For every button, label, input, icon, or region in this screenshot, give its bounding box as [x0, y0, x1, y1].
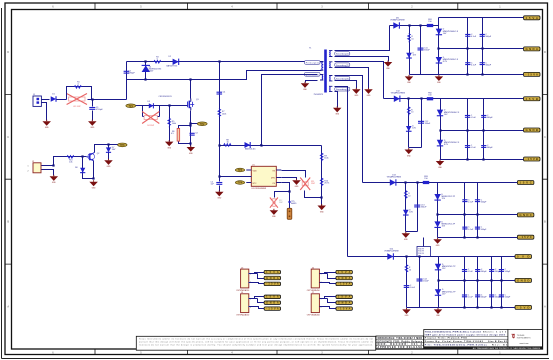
svg-text:560pF: 560pF — [487, 147, 493, 149]
wire block4 bottom rail — [407, 307, 516, 309]
net tab block4 out+ — [515, 255, 532, 259]
wire J6 pin1 to tab1 — [320, 273, 336, 274]
net tab block4 mid — [515, 278, 532, 282]
svg-text:INSTRUMENTS: INSTRUMENTS — [517, 338, 531, 340]
ground sec3 — [352, 88, 361, 97]
svg-text:-15VA: -15VA — [338, 307, 351, 310]
transformer T1 secondary winding 4 — [329, 86, 332, 91]
svg-text:560pF: 560pF — [481, 201, 487, 203]
wire snub diode leg — [145, 62, 147, 80]
diode D6 — [245, 142, 251, 148]
resistor R7 divider — [218, 109, 226, 118]
svg-text:0.5: 0.5 — [171, 133, 174, 135]
title block main table rows — [424, 330, 508, 346]
svg-text:28.7k: 28.7k — [324, 183, 329, 185]
resistor R11 (DNP) — [300, 178, 310, 191]
page edge left — [1, 8, 3, 359]
svg-text:Sheet: 1 of 1: Sheet: 1 of 1 — [483, 330, 507, 333]
transformer T1 secondary winding 2 — [329, 62, 332, 68]
wire CS pin net — [282, 183, 290, 209]
ground block4 mesh — [434, 308, 443, 317]
zener D22 snubber — [406, 126, 417, 132]
capacitor C330 upper — [462, 199, 474, 203]
wire block2 top rail — [441, 98, 524, 100]
transistor Q1 — [188, 99, 200, 111]
label R12 — [279, 200, 284, 204]
wire block2 bottom rail — [441, 159, 524, 161]
wire LF1 out to bulk node — [88, 99, 127, 101]
svg-text:Size B Rev E1: Size B Rev E1 — [488, 341, 508, 343]
wire DNP resistor stubs — [143, 106, 160, 117]
wire block2 mesh column — [483, 99, 485, 160]
resistor R5 — [168, 118, 176, 128]
wire Q1 gate line — [136, 105, 188, 107]
wire block1 output line — [390, 25, 439, 27]
wire block1 bottom rail — [410, 74, 524, 76]
net tab J7 b — [336, 301, 353, 305]
wire lower bus step to primary pin2 — [191, 71, 322, 80]
svg-text:2: 2 — [28, 171, 29, 173]
resistor R12 body — [273, 199, 275, 207]
svg-text:warrant that this design will: warrant that this design will meet the s… — [139, 341, 373, 344]
wire Xcap leg — [126, 62, 128, 80]
transformer T1 primary winding — [320, 62, 323, 70]
svg-text:4700pF: 4700pF — [96, 109, 104, 111]
diode D11 — [393, 22, 399, 28]
net tab J4 a — [264, 295, 281, 299]
net tab J4 b — [264, 301, 281, 305]
wire block2 mesh column — [467, 99, 469, 160]
svg-text:10: 10 — [226, 142, 228, 144]
net tab J7 c — [336, 307, 353, 311]
diode D2 on rail — [173, 59, 179, 65]
title block main table — [424, 330, 508, 347]
svg-text:560pF: 560pF — [505, 271, 511, 273]
label R11 DNP — [311, 181, 316, 185]
diode D3 bulk clamp — [142, 65, 150, 72]
wire block1 mesh column — [467, 18, 469, 75]
wire C5 branch — [219, 146, 221, 192]
wire sec4 return — [335, 92, 338, 108]
wire J6 pin1 to tab2 — [325, 274, 336, 279]
wire block4 mesh left column — [438, 257, 440, 308]
resistor R4 (DNP) — [142, 112, 159, 127]
svg-text:0.1uF: 0.1uF — [471, 36, 477, 38]
ferrite bead FB2 — [427, 92, 433, 100]
svg-text:560pF: 560pF — [481, 229, 487, 231]
zener D7 — [106, 147, 116, 153]
wire block4 mesh column — [491, 257, 493, 308]
title block bottom bar — [424, 347, 543, 350]
wire VDD line — [220, 145, 322, 147]
svg-text:Drawn By: Vishal Kumar TIDA-01: Drawn By: Vishal Kumar TIDA-010062 — [425, 340, 484, 343]
port label secondary4 — [335, 87, 350, 91]
zener D41 — [436, 57, 459, 63]
ferrite bead FB3 — [423, 176, 429, 184]
svg-text:150uF: 150uF — [423, 281, 429, 283]
svg-text:R4 DNP: R4 DNP — [147, 125, 155, 127]
svg-text:600V: 600V — [149, 71, 154, 73]
capacitor C430 lower — [462, 227, 474, 231]
wire bulk rail — [127, 61, 324, 63]
svg-text:Secondary(3): Secondary(3) — [336, 77, 349, 80]
test point TP3 — [235, 168, 245, 172]
capacitor C441 lower — [475, 295, 487, 299]
ground R12 — [270, 209, 279, 218]
ferrite bead FB1 — [427, 19, 433, 27]
capacitor C14 bulk — [417, 279, 430, 283]
svg-text:Secondary(2): Secondary(2) — [336, 64, 349, 67]
svg-text:330uF: 330uF — [421, 207, 427, 209]
svg-text:560pF: 560pF — [487, 117, 493, 119]
zener D43 — [434, 221, 455, 227]
title block drawn table rows — [376, 337, 424, 349]
junctions block1 — [408, 24, 483, 75]
label T1 — [309, 48, 312, 50]
wire block4 output line — [348, 256, 439, 258]
port label secondary3 — [335, 76, 350, 80]
svg-text:C: C — [7, 136, 9, 139]
svg-text:-15VB: -15VB — [526, 157, 539, 161]
wire J4 pin2 to tab3 — [249, 307, 265, 309]
capacitor C4 divider — [217, 92, 227, 94]
svg-text:TP6: TP6 — [120, 144, 125, 147]
svg-text:UCC28704DBVR: UCC28704DBVR — [252, 188, 267, 190]
svg-text:-15VA: -15VA — [338, 283, 351, 286]
TI logo box — [508, 330, 543, 347]
resistor R12 snubber — [407, 107, 414, 116]
svg-text:TIDA-010062E1(001)_PWR.SchDoc: TIDA-010062E1(001)_PWR.SchDoc Isolated — [425, 330, 482, 333]
wire J4 pin1 to tab2 — [255, 299, 265, 303]
wire block2 mesh left column — [440, 99, 442, 160]
svg-text:0: 0 — [157, 58, 158, 60]
resistor R13 — [67, 156, 74, 164]
wire J7 pin1 to tab2 — [325, 299, 336, 303]
test point TP1 gate — [126, 104, 136, 108]
diode D12 — [394, 96, 400, 102]
svg-text:GNDA: GNDA — [526, 47, 539, 51]
label C2 — [128, 71, 135, 75]
pin stubs U1 — [246, 170, 281, 183]
net tab block3 mid — [517, 213, 534, 217]
resistor network R20 box — [417, 247, 431, 257]
wire startup divider — [219, 62, 221, 146]
test point TP4 — [235, 181, 245, 185]
junction TP5 — [288, 201, 290, 203]
zener D42 — [437, 140, 460, 146]
common-mode choke LF1 (DNP) — [67, 94, 87, 108]
capacitor C331 upper — [475, 199, 487, 203]
net tab block3 out+ — [517, 181, 534, 185]
wire J1 pin1 to D1 — [42, 99, 50, 101]
wire J7 pin2 to tab3 — [320, 307, 336, 309]
capacitor C342 upper — [489, 269, 501, 273]
port label primary — [305, 61, 321, 65]
capacitor C13 bulk — [414, 205, 427, 209]
wire bypass loop over LF1 — [67, 87, 92, 100]
ground sec4 — [333, 106, 342, 115]
diode D5 on gate — [148, 101, 154, 109]
transformer T1 core — [324, 50, 327, 93]
label D2 part — [167, 65, 178, 68]
resistor R9 fb upper — [320, 153, 328, 162]
zener D32 — [437, 110, 460, 116]
connector J6 — [307, 267, 322, 292]
wire aux to VDD — [262, 75, 318, 146]
resistor R11 snubber — [408, 33, 415, 42]
port label secondary2 — [335, 63, 350, 67]
wire sense branch — [179, 126, 191, 144]
ground C5 — [215, 190, 224, 199]
capacitor C24 snubber — [404, 285, 416, 289]
svg-text:TP2: TP2 — [200, 123, 205, 126]
capacitor C440 lower — [462, 295, 474, 299]
capacitor C321 upper — [481, 115, 493, 119]
svg-text:VSSAF512HM3/I: VSSAF512HM3/I — [387, 175, 402, 178]
net tab J4 c — [264, 307, 281, 311]
svg-text:VDD: VDD — [253, 170, 258, 172]
zener D33 — [434, 194, 455, 200]
diode D1 — [51, 94, 56, 102]
junctions block2 — [407, 97, 484, 160]
net tab block1 out+ — [524, 16, 541, 20]
svg-text:Texas Instruments and/or its l: Texas Instruments and/or its licensors d… — [139, 337, 374, 340]
wire block3 mesh left column — [437, 183, 439, 238]
wire block3 mesh column — [464, 183, 466, 238]
capacitor C442 lower — [489, 295, 501, 299]
capacitor C12 bulk — [418, 121, 431, 125]
transformer T1 secondary winding 3 — [329, 76, 332, 81]
capacitor C411 lower — [480, 62, 492, 66]
label D6 part — [245, 148, 255, 151]
wire block4 mid rail — [439, 280, 516, 282]
capacitor C421 lower — [481, 145, 493, 149]
svg-text:DESIGNED FOR: Public Release: DESIGNED FOR: Public Release — [378, 341, 423, 343]
svg-text:110k: 110k — [324, 158, 328, 160]
wire FB divider — [321, 146, 323, 206]
wire block1 mesh left column — [438, 18, 440, 75]
wire J2 pin1 — [42, 157, 87, 166]
op-amp U1 controller — [251, 164, 276, 190]
label D14 — [384, 248, 399, 252]
wire block3 top rail — [438, 182, 518, 184]
port label secondary1 — [335, 52, 350, 56]
net tab J6 b — [336, 276, 353, 280]
net tab J6 a — [336, 270, 353, 274]
ground block1 mesh — [435, 75, 444, 84]
wire sec4 top to block4 — [335, 87, 348, 257]
net tab block2 out+ — [524, 97, 541, 101]
capacitor C320 upper — [465, 115, 477, 119]
svg-text:VSSAF512HM3/I: VSSAF512HM3/I — [384, 249, 399, 252]
svg-text:TP1: TP1 — [129, 105, 134, 108]
ground block3 mesh — [433, 238, 442, 247]
svg-text:OSTVN02A150: OSTVN02A150 — [307, 314, 320, 317]
capacitor C11 bulk — [418, 48, 431, 52]
resistor R3 on rail — [154, 56, 161, 63]
wire block4 snubber branch — [406, 257, 408, 308]
svg-text:0: 0 — [78, 84, 79, 86]
wire block3 mid rail — [438, 214, 518, 216]
test point TP6 — [118, 143, 128, 147]
ground DRV — [292, 179, 301, 188]
svg-text:150: 150 — [428, 21, 431, 23]
title block drawn table — [376, 336, 424, 349]
wire sec3 return — [335, 81, 357, 89]
wire block1 snubber branch — [409, 26, 411, 75]
svg-text:1.0uF: 1.0uF — [410, 287, 416, 289]
svg-text:1: 1 — [28, 166, 29, 168]
wire block3 output line — [363, 182, 438, 184]
zener D21 snubber — [406, 52, 417, 58]
capacitor C340 upper — [462, 269, 474, 273]
svg-text:VSSAF512HM3/I: VSSAF512HM3/I — [390, 18, 405, 21]
wire D1 to LF1 — [57, 99, 67, 101]
svg-text:D2: D2 — [169, 56, 171, 58]
wire J3 pin2 to tab3 — [249, 283, 265, 284]
wire J4 pin1 to tab1 — [249, 297, 265, 299]
svg-text:D: D — [7, 51, 9, 54]
label C3 — [195, 133, 197, 135]
wire Q2 collector — [95, 145, 118, 153]
svg-text:NTC: NTC — [253, 183, 258, 185]
net tab J3 c — [264, 282, 281, 286]
label D2 — [169, 56, 171, 58]
svg-text:560pF: 560pF — [485, 64, 491, 66]
wire block4 mesh column — [477, 257, 479, 308]
wire J6 pin2 to tab3 — [320, 283, 336, 284]
capacitor C343 upper — [499, 269, 511, 273]
capacitor C443 lower — [499, 295, 511, 299]
resistor R1 on bypass — [74, 81, 81, 88]
svg-text:GNDD: GNDD — [517, 278, 530, 282]
ground block2 snubber — [405, 148, 414, 157]
svg-text:-15VA: -15VA — [266, 307, 279, 310]
wire Q2 emitter — [83, 157, 94, 179]
svg-text:330uF: 330uF — [425, 123, 431, 125]
svg-text:0.1uF: 0.1uF — [468, 297, 474, 299]
capacitor C341 upper — [475, 269, 487, 273]
wire block1 top rail — [439, 17, 524, 19]
svg-text:Q2: Q2 — [97, 153, 100, 155]
wire block3 snubber branch — [405, 183, 407, 232]
wire sec3 top to block3 — [335, 76, 363, 183]
ground C1 — [88, 120, 97, 129]
svg-text:0.1uF: 0.1uF — [471, 147, 477, 149]
diode D13 — [390, 179, 396, 185]
ground block4 snubber — [402, 308, 411, 317]
wire J1 pin2 down — [42, 103, 47, 121]
svg-text:www.ti.com: www.ti.com — [519, 342, 529, 345]
net tab block2 out- — [524, 157, 541, 161]
svg-text:-15VC: -15VC — [519, 235, 532, 239]
svg-text:100k: 100k — [172, 123, 176, 125]
svg-text:D5: D5 — [148, 101, 150, 103]
svg-text:4700pF: 4700pF — [128, 73, 135, 75]
svg-text:Secondary(1): Secondary(1) — [336, 53, 349, 56]
wire J7 pin1 to tab1 — [320, 297, 336, 299]
resistor R13 snubber — [404, 190, 411, 199]
svg-text:APPROVED FOR RELEASE: APPROVED FOR RELEASE — [378, 346, 423, 349]
net tab block1 mid — [524, 47, 541, 51]
wire sec2 return — [335, 68, 369, 89]
wire Q1 source — [190, 111, 192, 147]
svg-text:150: 150 — [428, 94, 431, 96]
svg-text:CSD19505KCS: CSD19505KCS — [159, 96, 173, 98]
svg-text:Project Title: Flyback PSU: Project Title: Flyback PSU — [425, 336, 468, 339]
svg-text:licensors do not warrant that: licensors do not warrant that the design… — [139, 344, 374, 347]
wire block4 mesh column — [464, 257, 466, 308]
label Q1 part — [159, 96, 173, 98]
wire block3 snubber tie — [406, 231, 418, 233]
ground D7 — [104, 159, 113, 168]
svg-text:Primary(1): Primary(1) — [306, 61, 319, 64]
wire J2 pin2 gnd — [42, 170, 54, 176]
ground Q1 source — [187, 146, 196, 155]
zener D31 — [436, 29, 459, 35]
svg-text:VSSAF512HM3/I: VSSAF512HM3/I — [391, 92, 406, 95]
ground block1 snubber — [405, 75, 414, 84]
transformer T1 auxiliary winding — [320, 75, 323, 81]
wire aux return — [306, 81, 318, 83]
port label auxiliary — [305, 72, 321, 76]
wire block3 bulk cap leg — [417, 183, 419, 232]
wire block2 snubber tie — [409, 147, 422, 149]
net tab J3 a — [264, 270, 281, 274]
wire source TP — [191, 123, 198, 125]
wire sec1 return — [335, 57, 389, 62]
wire block3 mesh column — [477, 183, 479, 238]
svg-text:0.1uF: 0.1uF — [468, 271, 474, 273]
wire Cin branch — [92, 100, 94, 121]
resistor R8 — [224, 140, 231, 147]
connector J1 — [33, 94, 41, 107]
wire input rise to rail — [126, 80, 128, 100]
svg-text:BAT54HT1G: BAT54HT1G — [167, 65, 178, 68]
wire block4 bulk cap leg — [419, 257, 421, 308]
ground block2 mesh — [436, 160, 445, 169]
wire VS pin net — [282, 171, 322, 198]
svg-text:TP4: TP4 — [238, 182, 243, 185]
resistor R10 fb lower — [320, 178, 329, 187]
disclaimer text — [139, 337, 374, 346]
svg-text:ALL TRADEMARKS ARE THE PROPERT: ALL TRADEMARKS ARE THE PROPERTY OF THEIR… — [473, 347, 541, 350]
capacitor C3 on source — [190, 133, 195, 135]
connector J4 — [236, 292, 251, 317]
wire block2 bulk cap leg — [421, 99, 423, 148]
ground J1 return — [42, 120, 51, 129]
svg-text:R 4.99: R 4.99 — [418, 253, 424, 255]
net tab J3 b — [264, 276, 281, 280]
disclaimer text box — [136, 336, 375, 350]
capacitor C5 — [216, 183, 222, 185]
svg-text:TEXAS: TEXAS — [517, 334, 525, 337]
capacitor C420 lower — [465, 145, 477, 149]
junction dots — [52, 60, 322, 198]
net tab block4 out- — [515, 305, 532, 309]
connector J2 — [28, 161, 42, 173]
ground aux — [301, 82, 310, 91]
svg-text:560pF: 560pF — [485, 36, 491, 38]
ground R5 — [165, 140, 174, 149]
svg-text:TP3: TP3 — [238, 169, 243, 172]
diode D14 — [387, 253, 393, 259]
svg-text:0.1uF: 0.1uF — [468, 201, 474, 203]
label D3 part — [149, 67, 162, 73]
svg-text:BAS316,115: BAS316,115 — [245, 148, 255, 151]
svg-text:750342879: 750342879 — [314, 94, 323, 96]
resistor R14 snubber — [405, 264, 412, 273]
